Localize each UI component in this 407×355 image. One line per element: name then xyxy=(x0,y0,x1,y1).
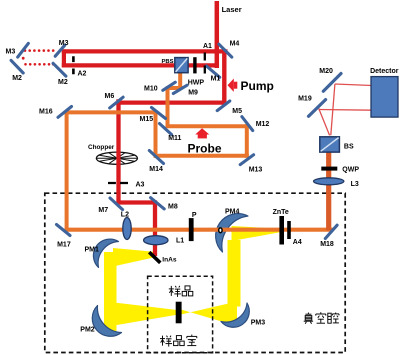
svg-text:L1: L1 xyxy=(176,238,184,245)
svg-text:M18: M18 xyxy=(320,241,334,248)
svg-text:PM1: PM1 xyxy=(85,247,100,254)
svg-text:BS: BS xyxy=(344,143,354,150)
svg-text:M19: M19 xyxy=(298,95,312,102)
svg-text:P: P xyxy=(192,212,197,219)
svg-text:Chopper: Chopper xyxy=(88,144,115,151)
svg-text:M6: M6 xyxy=(105,93,115,100)
svg-text:M15: M15 xyxy=(140,116,154,123)
svg-text:Laser: Laser xyxy=(222,5,242,14)
svg-text:PM3: PM3 xyxy=(251,320,266,327)
svg-text:M1: M1 xyxy=(211,76,221,83)
svg-text:HWP: HWP xyxy=(188,80,205,87)
svg-text:L2: L2 xyxy=(121,211,129,218)
svg-text:M14: M14 xyxy=(149,166,163,173)
svg-text:PM4: PM4 xyxy=(225,209,240,216)
svg-text:M11: M11 xyxy=(168,135,181,142)
svg-text:InAs: InAs xyxy=(162,257,177,264)
svg-text:L3: L3 xyxy=(351,181,359,188)
svg-text:PM2: PM2 xyxy=(80,327,95,334)
svg-text:A3: A3 xyxy=(136,181,145,188)
svg-text:A1: A1 xyxy=(203,43,212,50)
svg-text:M17: M17 xyxy=(57,242,71,249)
svg-text:M7: M7 xyxy=(98,207,108,214)
svg-text:M3: M3 xyxy=(6,49,16,56)
svg-text:QWP: QWP xyxy=(342,167,359,174)
svg-text:M4: M4 xyxy=(230,41,240,48)
svg-text:A2: A2 xyxy=(78,71,87,78)
svg-text:Pump: Pump xyxy=(241,79,274,93)
svg-text:A4: A4 xyxy=(293,239,302,246)
svg-text:M9: M9 xyxy=(188,90,198,97)
svg-text:M2: M2 xyxy=(12,75,22,82)
svg-text:M16: M16 xyxy=(39,109,53,116)
svg-text:ZnTe: ZnTe xyxy=(273,209,289,216)
svg-text:M12: M12 xyxy=(256,121,270,128)
svg-text:M8: M8 xyxy=(168,204,178,211)
svg-text:M5: M5 xyxy=(232,108,242,115)
svg-text:Probe: Probe xyxy=(188,141,222,155)
svg-text:M2: M2 xyxy=(58,79,68,86)
svg-text:M3: M3 xyxy=(59,40,69,47)
svg-text:Detector: Detector xyxy=(370,68,399,75)
svg-text:PBS: PBS xyxy=(162,59,174,65)
svg-text:M10: M10 xyxy=(144,86,158,93)
svg-text:M20: M20 xyxy=(319,68,333,75)
svg-text:M13: M13 xyxy=(249,167,263,174)
